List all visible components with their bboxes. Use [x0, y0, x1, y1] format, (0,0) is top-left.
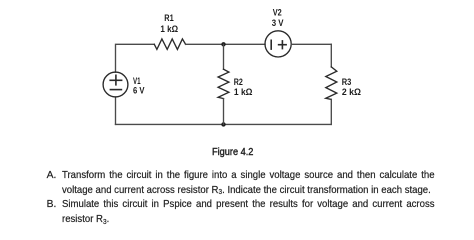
svg-text:6 V: 6 V [133, 85, 145, 96]
paragraph A line 1 [62, 170, 435, 182]
wire top-middle (R1 to V2) [186, 43, 265, 45]
svg-text:3 V: 3 V [272, 18, 284, 29]
paragraph B line 2 [62, 214, 109, 226]
svg-text:2 kΩ: 2 kΩ [342, 87, 361, 98]
wire top-left (V1 top to R1) [116, 44, 155, 72]
svg-text:1 kΩ: 1 kΩ [234, 87, 253, 98]
wire left branch lower (bottom to V1) [115, 97, 117, 124]
paragraph B line 1 [62, 199, 435, 211]
paragraph A line 2 [62, 185, 431, 197]
svg-text:1 kΩ: 1 kΩ [160, 24, 178, 35]
wire R2 branch upper [223, 44, 225, 69]
source V1 [103, 72, 145, 97]
svg-text:V2: V2 [273, 7, 282, 18]
node junction dot (bottom of R2) [221, 122, 225, 126]
node junction dot (top of R2) [221, 42, 225, 46]
svg-text:R1: R1 [164, 13, 174, 24]
list marker A. [47, 170, 57, 182]
wire R2 branch lower [223, 99, 225, 125]
caption Figure 4.2 [212, 147, 253, 159]
resistor R1 [154, 13, 185, 49]
source V2 [265, 7, 291, 57]
wire top-right (V2 to right corner) [291, 43, 331, 45]
list marker B. [47, 199, 57, 211]
wire right branch upper [330, 44, 332, 67]
resistor R3 [326, 67, 362, 100]
resistor R2 [218, 69, 253, 98]
wire right branch lower [330, 99, 332, 124]
wire bottom [116, 123, 332, 125]
